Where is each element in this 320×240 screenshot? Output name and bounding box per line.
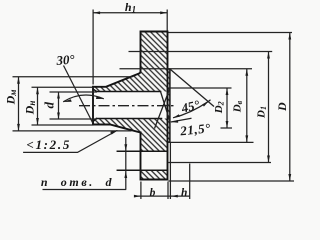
svg-text:45°: 45° [179, 97, 202, 116]
svg-text:n отв. d: n отв. d [41, 175, 114, 189]
svg-text:Dн: Dн [23, 101, 37, 116]
svg-text:21,5°: 21,5° [179, 120, 212, 138]
svg-text:D1: D1 [255, 106, 268, 119]
svg-text:Dм: Dм [3, 90, 18, 106]
svg-text:b: b [150, 187, 156, 199]
svg-text:D2: D2 [213, 101, 226, 114]
svg-text:d: d [41, 102, 56, 109]
svg-text:<1:2.5: <1:2.5 [26, 137, 71, 152]
svg-text:Dв: Dв [232, 100, 245, 113]
svg-text:h: h [181, 187, 187, 199]
svg-text:h1: h1 [125, 0, 136, 14]
svg-text:30°: 30° [55, 52, 76, 68]
svg-text:D: D [275, 102, 289, 112]
